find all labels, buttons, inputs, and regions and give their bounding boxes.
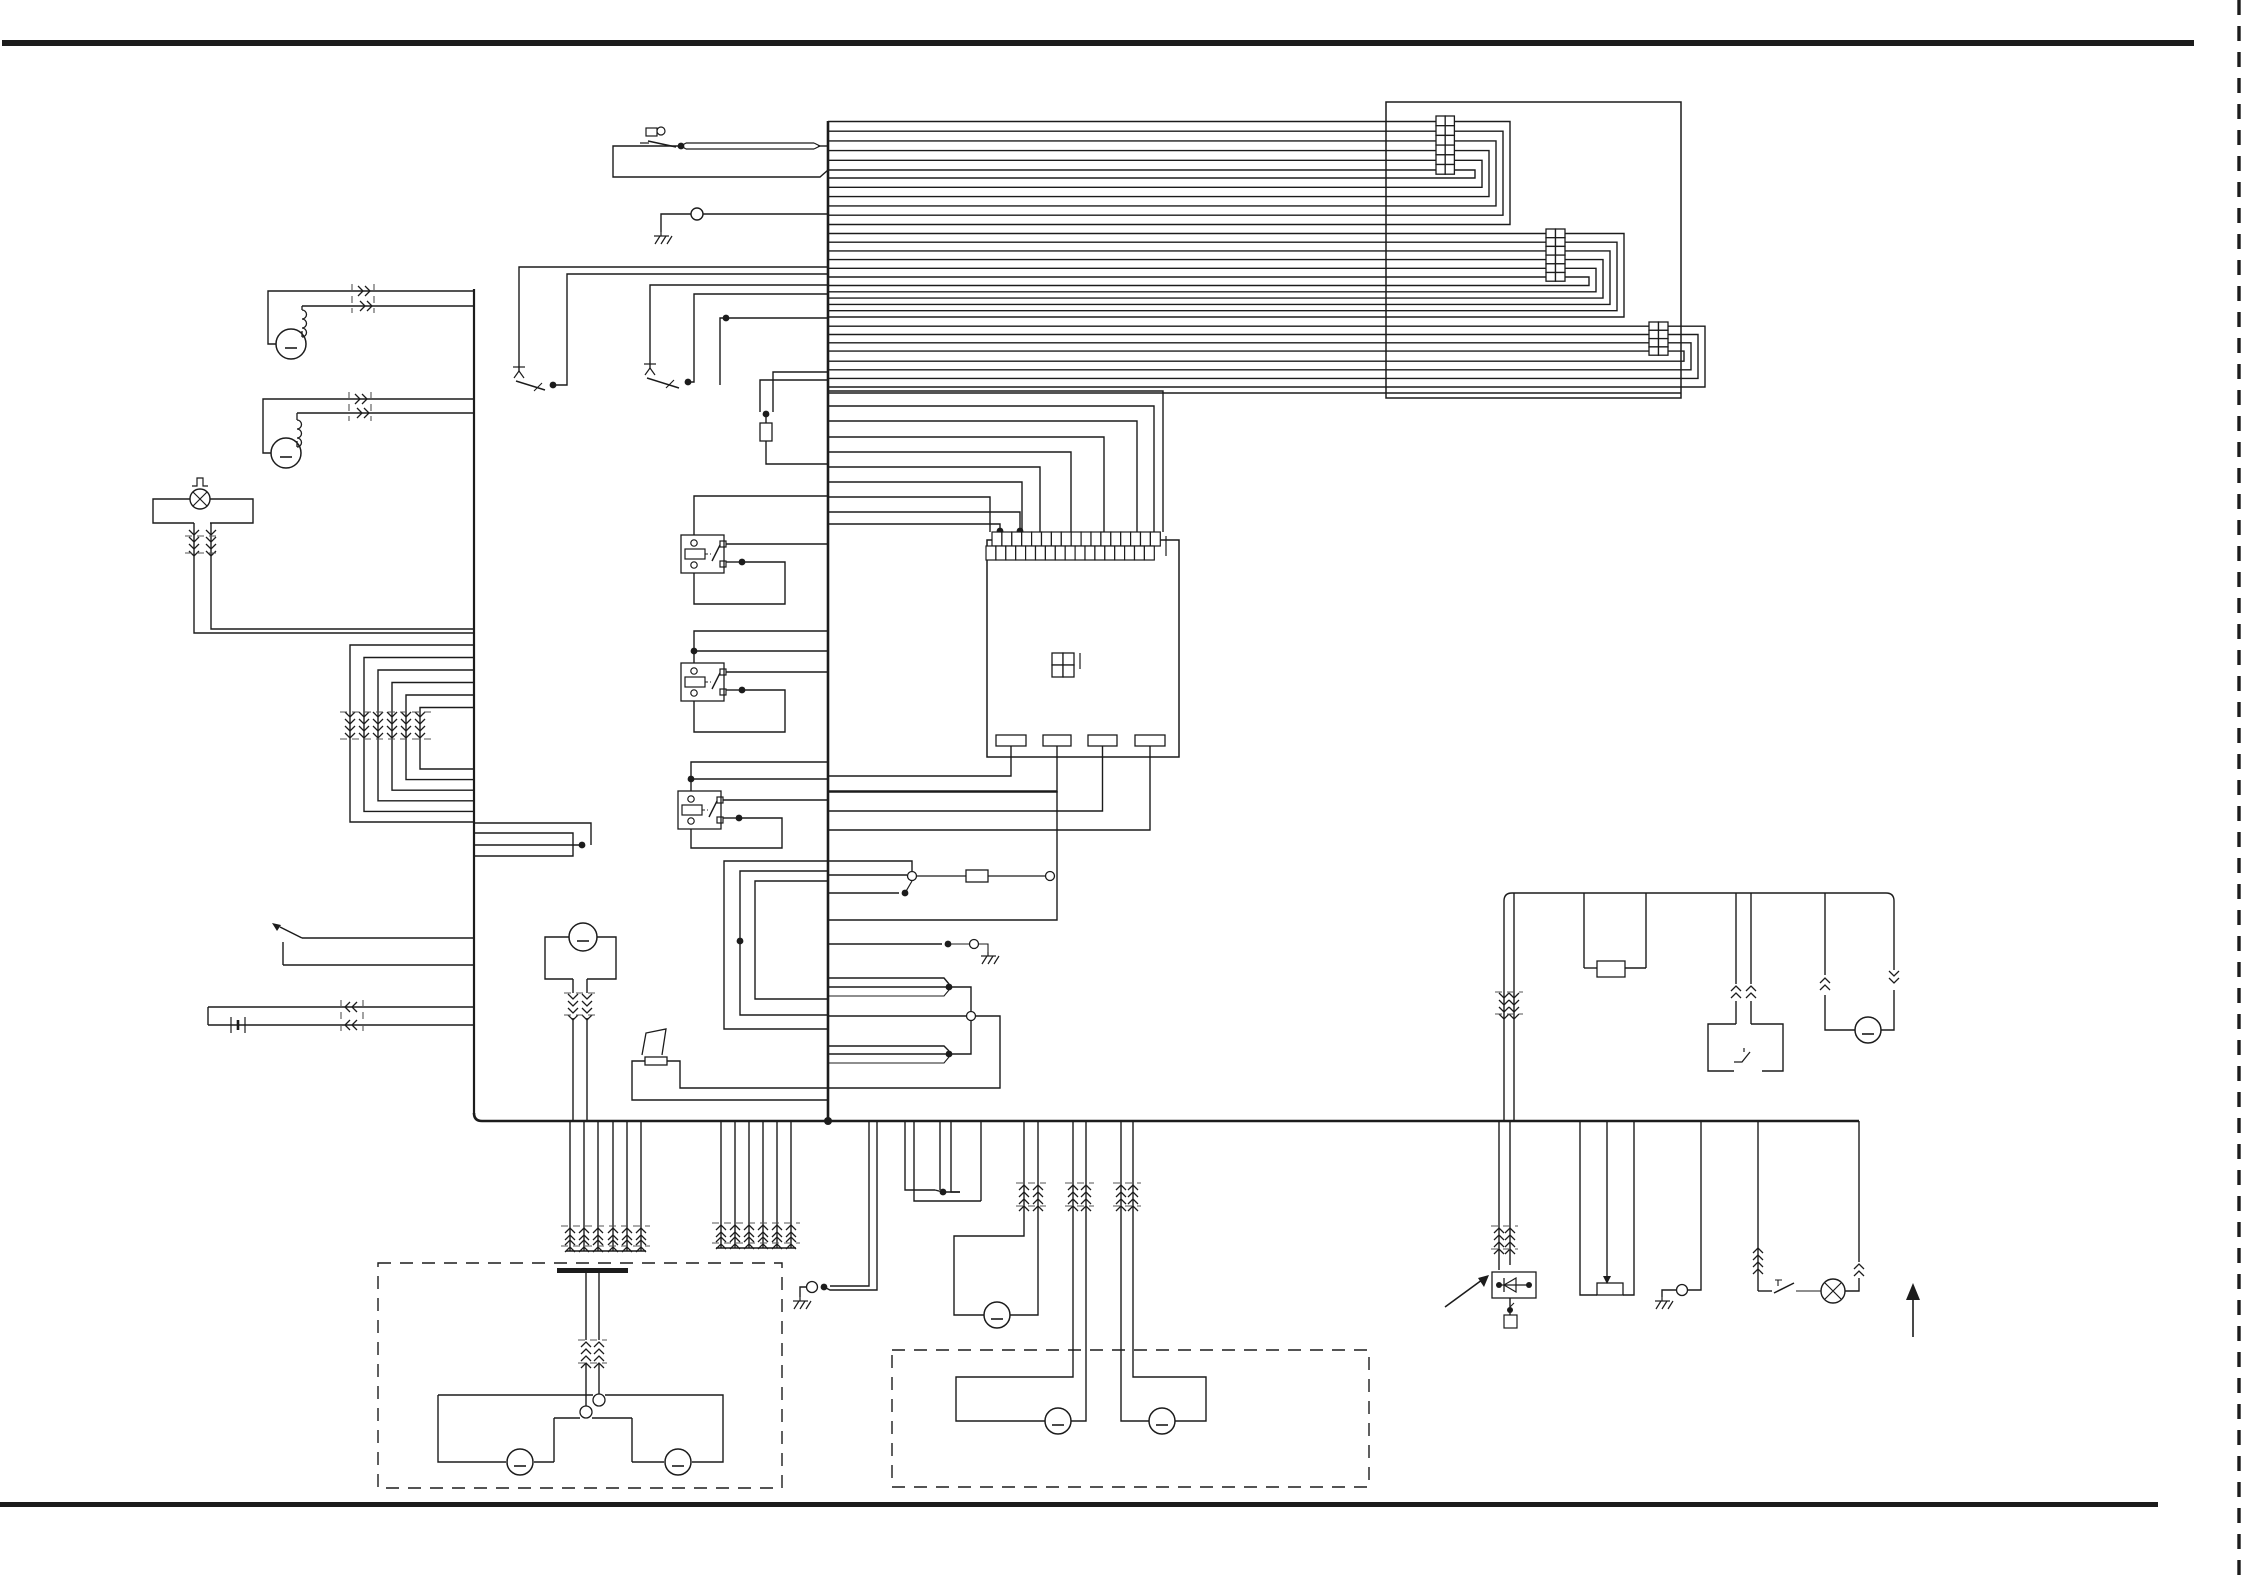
connector chevrons SCR <box>1494 1228 1515 1254</box>
wire H-frame inner <box>554 1418 632 1462</box>
wire lug link <box>905 881 912 893</box>
wire stub c <box>474 844 582 846</box>
fuse F1 <box>760 414 772 441</box>
pulse marker <box>192 478 208 486</box>
wire SW2 to bus <box>553 274 828 385</box>
connector chevrons M3 <box>568 994 592 1020</box>
motor M2 <box>271 438 301 468</box>
page bottom rule <box>0 1502 2158 1507</box>
wire group L1 (6 drops with connectors) <box>561 1121 650 1252</box>
wire motor M4 right <box>1893 904 1895 970</box>
motor M9 <box>665 1449 691 1475</box>
wire block pair a2 <box>1735 1001 1737 1024</box>
arrow adjust Q1 <box>1445 1275 1489 1307</box>
wire bus to F1 b <box>760 380 828 412</box>
wire staircase bus to ECU pins (8 runs) <box>828 391 1163 532</box>
node trio ring <box>967 1012 976 1021</box>
wire motor M4 left2 <box>1825 995 1855 1030</box>
relay K3 <box>678 791 723 829</box>
wire K3 return U <box>691 818 782 848</box>
node below-bus junction <box>821 1284 828 1291</box>
connector chevrons left staircase <box>345 712 425 738</box>
node trio junction 1 <box>946 984 953 991</box>
wire SW4 loop <box>283 938 474 965</box>
wire detour c <box>755 881 828 999</box>
relay K1 <box>681 535 726 573</box>
wire fuse loop top <box>828 790 1057 792</box>
busbar plate <box>557 1268 628 1273</box>
wire pot mid <box>1603 1121 1611 1284</box>
wire bundle C to connector J3 (8 runs) <box>828 326 1705 387</box>
connector dashes rail pair <box>1495 992 1523 1014</box>
wire horn to bus b <box>667 1061 828 1088</box>
connector chevrons lamp <box>189 530 216 556</box>
node K3 lug <box>736 815 743 822</box>
dashed enclosure left <box>378 1263 782 1488</box>
wire Q1 stub <box>1507 1298 1513 1315</box>
wire bundle spare run <box>828 392 1681 394</box>
motor M1 <box>276 329 306 359</box>
ring terminal T2 <box>807 1282 818 1293</box>
wire group L2 (6 drops with connectors) <box>712 1121 800 1249</box>
inductor L2 <box>297 413 302 447</box>
wire to ECU pin with junction a <box>828 512 1023 534</box>
wire detour a <box>724 861 828 1029</box>
wire M3 stem a <box>572 979 574 993</box>
wire K1 coil to bus <box>694 496 828 535</box>
wire pair C left <box>1121 1121 1149 1421</box>
wire left harness trunk (vertical) <box>473 289 475 1114</box>
wire T2 ground <box>800 1287 806 1297</box>
wire M2 top to trunk <box>263 399 474 453</box>
wire plate stem b <box>598 1273 600 1340</box>
wire bundle A to connector J1 (12 runs) <box>828 122 1510 225</box>
wire trio link 2 <box>949 1020 971 1054</box>
node SW1 contact <box>678 143 685 150</box>
motor M5 <box>984 1302 1010 1328</box>
resistor R1 <box>1597 1283 1623 1295</box>
relay K2 <box>681 663 726 701</box>
node sensor junction <box>945 941 952 948</box>
wire rail drop pair b <box>1513 893 1515 1121</box>
wire motor M4 right2 <box>1881 990 1894 1030</box>
connector chevrons M4 left <box>1820 978 1830 990</box>
arrow marker up <box>1906 1283 1920 1337</box>
connector chevrons pair A <box>1019 1185 1043 1211</box>
node sensor ring <box>970 940 979 949</box>
dashed enclosure centre <box>892 1350 1369 1487</box>
ground G4 <box>1655 1297 1673 1309</box>
wire lamp stem a <box>193 523 195 559</box>
wire pair C right <box>1133 1121 1206 1421</box>
connector dashes M2 <box>349 392 371 421</box>
wire K1 lug <box>726 561 742 563</box>
wire K2 coil to bus <box>694 631 828 663</box>
connector chevrons rail pair <box>1499 993 1519 1019</box>
wire plate stem a <box>585 1273 587 1340</box>
wire uloop <box>905 1121 981 1201</box>
connector dashes pair B <box>1065 1183 1094 1206</box>
wire plate stem a2 <box>585 1363 587 1406</box>
connector dashes left staircase <box>340 712 432 739</box>
switch SW2 <box>513 367 545 391</box>
wire pot right <box>1623 1121 1634 1295</box>
wire sensor to ground <box>979 944 988 952</box>
wire block pair b2 <box>1750 1001 1752 1024</box>
wire pair A left <box>954 1121 1024 1315</box>
wire ring row <box>828 1015 966 1017</box>
lamp LP2 <box>1821 1279 1845 1303</box>
node K1 lug <box>739 559 746 566</box>
connector J1 (2x6 grid) <box>1436 116 1454 174</box>
wire L2 to trunk <box>297 412 474 414</box>
motor M6 <box>1045 1408 1071 1434</box>
connector chevrons M1 top <box>358 286 370 296</box>
connector dashes SCR <box>1491 1226 1518 1249</box>
ring terminal T4 <box>593 1394 605 1406</box>
wire bundle left staircase (6 loops) <box>350 645 474 822</box>
wire bundle B to connector J2 (12 runs) <box>828 234 1624 318</box>
wire T3 drop <box>1688 1121 1701 1290</box>
fuse F3 loop <box>1583 893 1585 975</box>
wire SW1 return loop <box>613 146 828 177</box>
connector J2 (2x6 grid) <box>1546 229 1565 281</box>
wire lamp to trunk a <box>211 559 474 629</box>
wire T1 to ground <box>661 214 691 232</box>
wire F1 to bus <box>766 441 828 464</box>
wire lug trio upper a <box>828 978 949 984</box>
wire to ECU pin with junction b <box>828 524 1003 534</box>
wire M3 stem b <box>586 979 588 993</box>
wire main harness trunk (vertical bus) <box>827 121 830 1121</box>
wire stub b (U) <box>474 833 573 856</box>
connector chevrons lamp riser <box>1854 1264 1864 1276</box>
wire bus to F1 a <box>773 372 828 412</box>
node ring a <box>908 872 917 881</box>
connector J3 (2x4 grid) <box>1649 322 1668 355</box>
ground G2 <box>981 952 999 964</box>
node F1 top <box>763 411 770 418</box>
wire battery pair <box>208 1007 474 1025</box>
connector chevrons M2 bottom <box>357 408 369 418</box>
wire M3 to bottom trunk a <box>572 1018 574 1121</box>
wire SW3 branch to bus <box>720 318 828 385</box>
thyristor Q1 <box>1492 1272 1536 1298</box>
wire lamp branch right <box>1845 1278 1859 1291</box>
lamp bracket block <box>153 499 253 523</box>
wire lug trio upper b <box>828 986 949 988</box>
connector chevrons pair C <box>1116 1185 1138 1211</box>
switch SW5 <box>1758 1280 1821 1293</box>
battery B1 <box>231 1017 245 1033</box>
wire K3 branch to bus <box>691 778 828 780</box>
node SW3 out <box>685 379 692 386</box>
ECU U1 body <box>987 540 1179 757</box>
wire SW3 to bus <box>688 294 828 382</box>
node K2 lug <box>739 687 746 694</box>
connector dashes M3 <box>564 993 596 1015</box>
node SW3 branch <box>723 315 730 322</box>
wire drop a <box>830 1121 869 1286</box>
wire sensor row <box>828 943 942 945</box>
connector chevrons battery <box>345 1002 357 1030</box>
wire fuse loop right <box>828 791 1057 920</box>
wire bottom harness trunk (horizontal bus) <box>474 1113 1859 1121</box>
ECU U1 top pin strip <box>986 532 1166 560</box>
node ring b <box>1046 872 1055 881</box>
wire drop b <box>824 1121 877 1290</box>
node junction bus/bottom trunk <box>824 1117 832 1125</box>
wire circuit-B feed <box>650 285 828 368</box>
connector dashes battery <box>341 1000 363 1032</box>
wire pair A right <box>1010 1121 1038 1315</box>
node SW2 out <box>550 382 557 389</box>
wire M3 to bottom trunk b <box>586 1018 588 1121</box>
wire circuit-A feed <box>519 267 828 372</box>
wire fuse row <box>828 874 907 876</box>
switch SW3 <box>644 364 679 388</box>
wire lamp stem b <box>210 523 212 559</box>
connector chevrons M1 bottom <box>360 301 372 311</box>
wire pot left <box>1580 1121 1597 1295</box>
ring terminal T3 <box>1677 1285 1688 1296</box>
sensor block S1 <box>1708 1024 1783 1071</box>
connector chevrons plate <box>581 1342 604 1368</box>
wire K1 no-contact to bus <box>726 543 828 545</box>
wire motor M4 left <box>1824 893 1826 975</box>
wire lug trio lower c <box>828 1057 949 1063</box>
node trio junction 2 <box>946 1051 953 1058</box>
wire lamp to trunk b <box>194 559 474 633</box>
node K2 branch <box>691 648 698 655</box>
wire lug trio lower a <box>828 1046 949 1051</box>
wire trio link 1 <box>949 987 971 1012</box>
connector chevrons M2 top <box>355 394 367 404</box>
ECU U1 bottom pins and wires to bus <box>828 735 1165 830</box>
wire T1 to bus <box>703 213 828 215</box>
switch SW4 blade <box>272 923 302 938</box>
connector dashes plate <box>578 1340 607 1363</box>
connector housing box (top right) <box>1386 102 1681 398</box>
connector chevrons lamp branch <box>1753 1248 1763 1274</box>
ground G1 <box>654 232 672 244</box>
wire K2 lug <box>726 689 742 691</box>
wire block pair a <box>1735 893 1737 984</box>
connector dashes M1 <box>352 284 374 313</box>
wire lug c <box>828 892 899 894</box>
wire fuse feed top <box>828 861 912 871</box>
connector chevrons pair B <box>1068 1185 1091 1211</box>
ECU U1 inner grid marker <box>1052 653 1080 677</box>
wire K3 no-contact to bus <box>723 799 828 801</box>
wire lamp branch left <box>1757 1121 1759 1291</box>
wire lug trio lower b <box>828 1053 949 1055</box>
connector small Q1 <box>1504 1303 1517 1328</box>
wire H-frame outer <box>438 1395 723 1462</box>
wire K3 lug <box>723 817 739 819</box>
wire K3 coil to bus <box>691 762 828 791</box>
ring terminal T1 <box>691 208 703 220</box>
wire K2 no-contact to bus <box>726 671 828 673</box>
wire detour b <box>740 871 828 1015</box>
connector dashes pair A <box>1016 1183 1046 1206</box>
connector dashes pair C <box>1113 1183 1141 1206</box>
wire stub a <box>474 823 591 845</box>
connector dashes lamp <box>185 536 221 553</box>
fuse F2 <box>917 870 1045 882</box>
page top rule <box>2 40 2194 46</box>
node uloop junction <box>940 1189 947 1196</box>
wire T3 ground <box>1662 1290 1676 1297</box>
wire ring loop down <box>828 1016 1000 1088</box>
wire SCR drop b <box>1509 1121 1511 1265</box>
switch SW1 (key switch) <box>640 127 676 147</box>
page right dashed trim line <box>2237 0 2240 1578</box>
lamp LP1 <box>190 489 210 509</box>
wire pair B right <box>1071 1121 1086 1421</box>
wire horn to bus a <box>632 1061 828 1100</box>
wire M1 top to trunk <box>268 291 474 344</box>
node K3 branch <box>688 776 695 783</box>
wire K2 return U <box>694 690 785 732</box>
wire lug trio upper c <box>828 990 949 996</box>
ring terminal T5 <box>580 1406 592 1418</box>
node detour <box>737 938 744 945</box>
motor M3 <box>569 923 597 951</box>
connector chevrons M4 right <box>1889 971 1899 983</box>
wire right rail <box>1504 893 1894 904</box>
wire rail drop pair a <box>1503 901 1505 1121</box>
wire lamp riser <box>1858 1121 1860 1262</box>
wire K2 branch to bus <box>694 650 828 652</box>
node stub junction <box>579 842 586 849</box>
inductor L1 <box>302 306 307 337</box>
connector chevrons block pair <box>1731 986 1756 998</box>
fuse F3 <box>1584 893 1646 977</box>
horn H1 <box>642 1029 667 1065</box>
wire K1 return U <box>694 562 785 604</box>
ground G3 <box>793 1297 811 1309</box>
wire block pair b <box>1750 893 1752 984</box>
wire SCR drop a <box>1498 1121 1500 1270</box>
motor M4 <box>1855 1017 1881 1043</box>
wire L1 to trunk <box>302 305 474 307</box>
motor M7 <box>1149 1408 1175 1434</box>
wire plate stem b2 <box>598 1363 600 1394</box>
motor M8 <box>507 1449 533 1475</box>
wire SW1 to bus (terminal lug) <box>681 143 828 149</box>
node lug c <box>902 890 909 897</box>
motor M3 bracket <box>545 937 616 979</box>
wire sensor link <box>948 943 969 945</box>
wire pair B left <box>956 1121 1073 1421</box>
